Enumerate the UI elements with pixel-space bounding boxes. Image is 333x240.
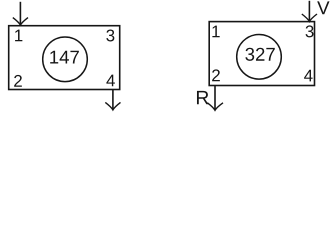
package U2 body: [209, 22, 314, 86]
pin 1 label U1: [15, 30, 22, 42]
net label R: [197, 91, 208, 104]
unit circle U1: [43, 37, 88, 82]
value label 327: [245, 48, 274, 61]
pin 4 label U2: [304, 70, 313, 82]
pin 3 label U2: [306, 25, 314, 37]
input wire arrow V into U2 pin 3: [302, 1, 317, 22]
pin 2 label U2: [212, 69, 220, 81]
pin 1 label U2: [212, 26, 219, 38]
pin 4 label U1: [106, 75, 115, 87]
value label 147: [50, 51, 79, 64]
output wire arrow from U1 pin 4: [105, 90, 120, 110]
output wire arrow R from U2 pin 2: [207, 86, 223, 111]
pin 2 label U1: [14, 75, 22, 87]
input wire arrow into U1 pin 1: [13, 2, 28, 25]
package U1 body: [9, 26, 120, 90]
net label V: [317, 1, 329, 14]
unit circle U2: [237, 35, 282, 80]
pin 3 label U1: [106, 30, 114, 42]
